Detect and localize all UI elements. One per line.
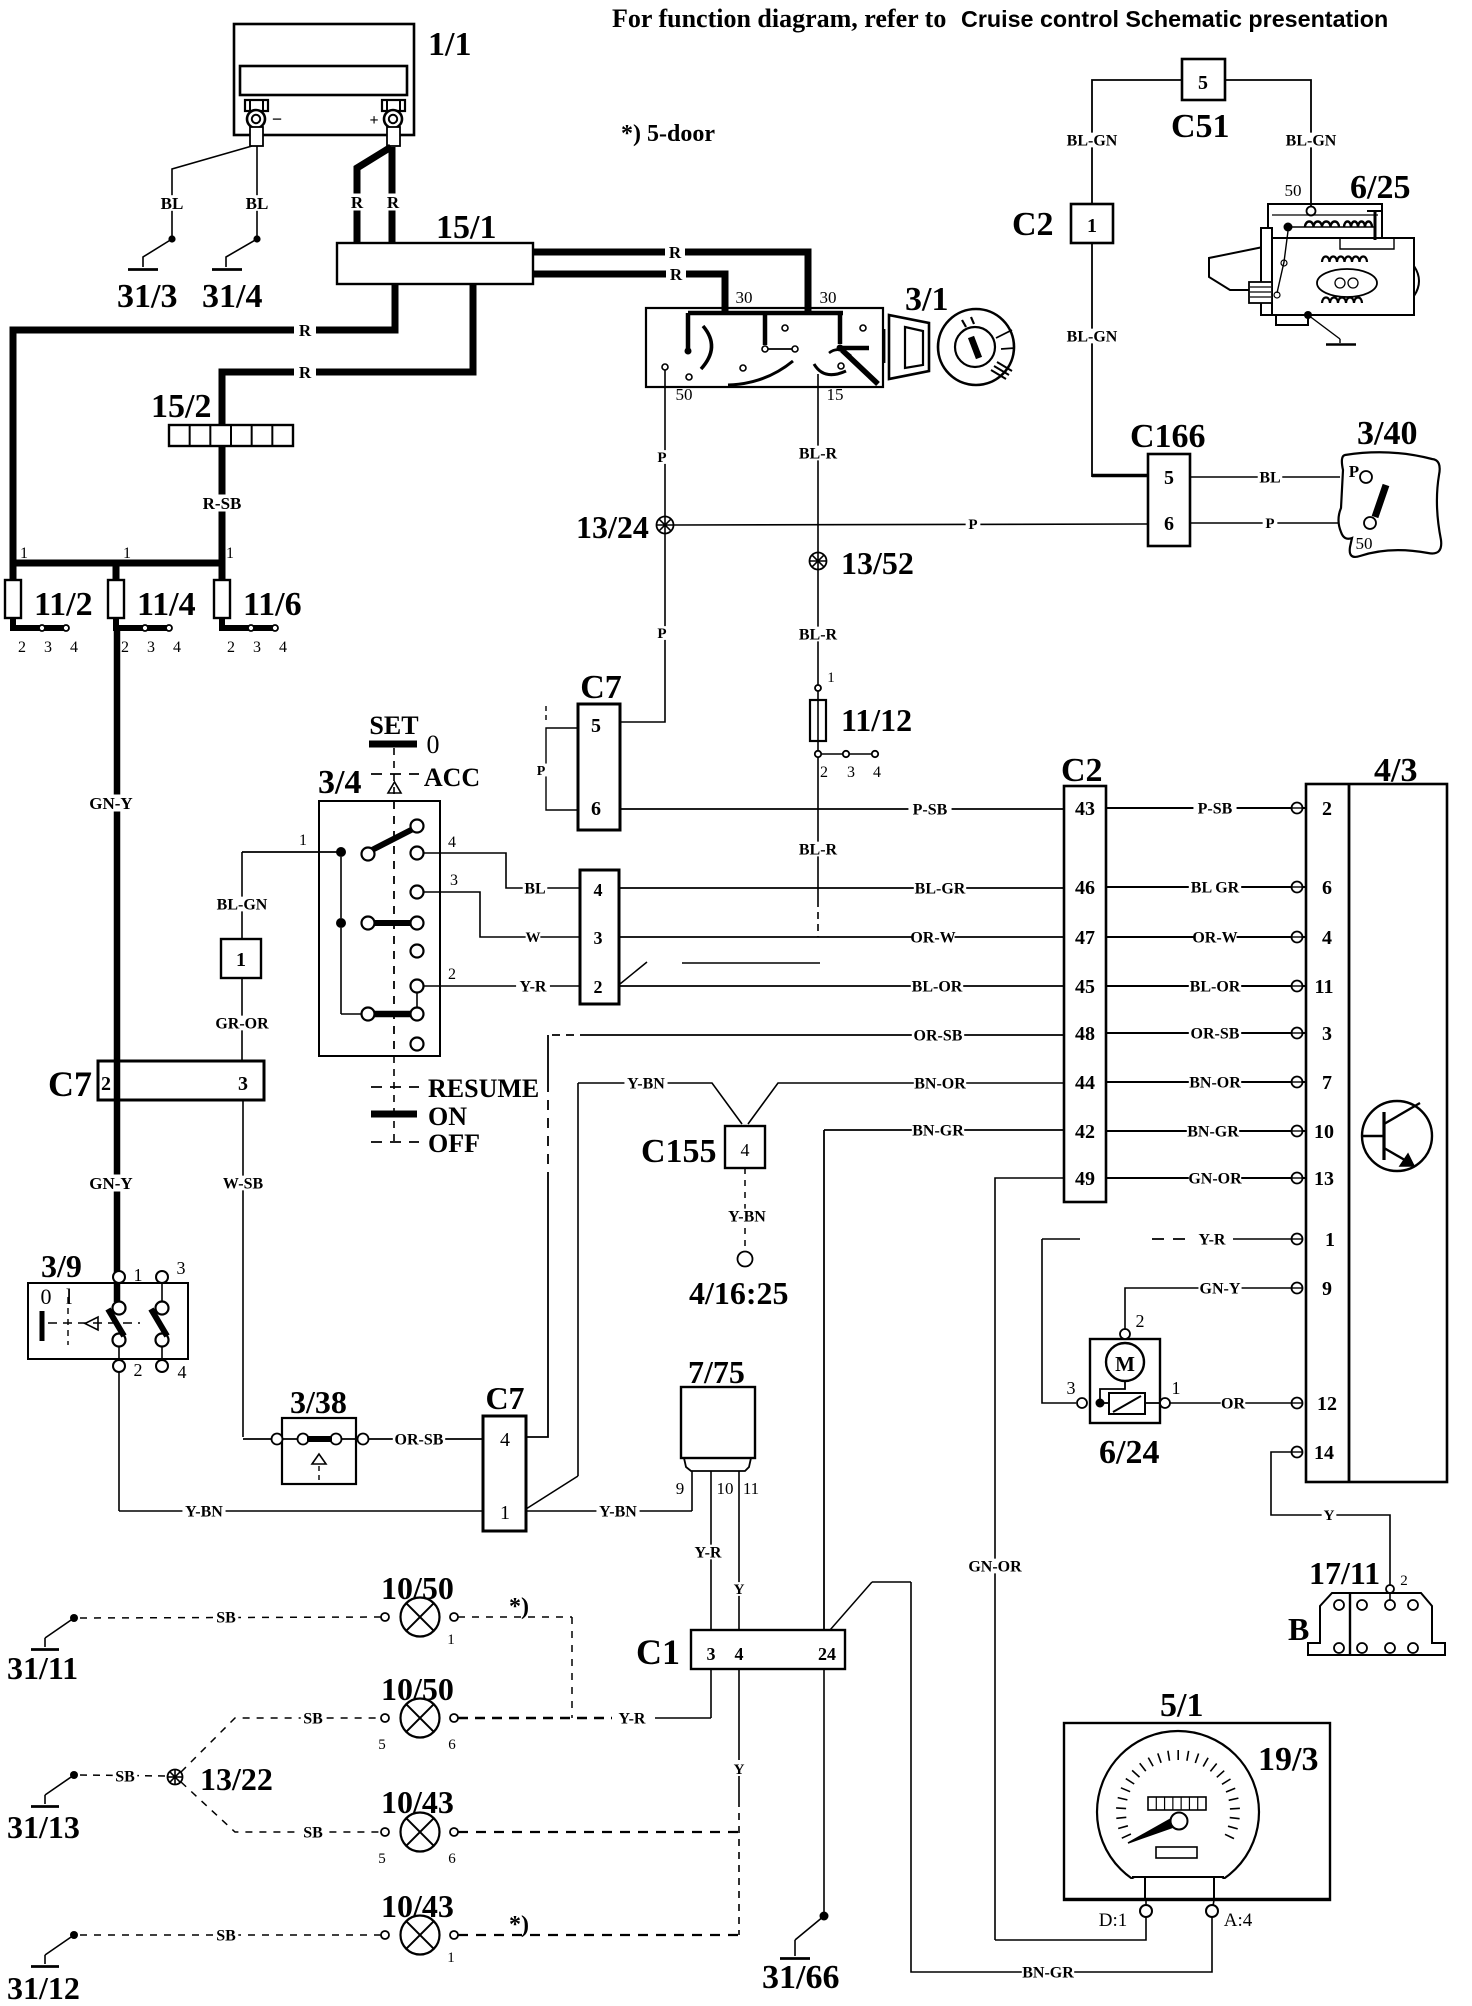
svg-text:BL-OR: BL-OR [912,978,963,995]
svg-text:42: 42 [1075,1121,1095,1143]
wire BN-OR C155 to C2 pin 44 [748,1083,1064,1124]
wire fuse bus node 1 [13,560,222,567]
svg-text:3/38: 3/38 [290,1384,347,1420]
cruise control module 4/3 [1306,784,1447,1482]
servo pin 3 [1077,1398,1087,1408]
svg-text:2: 2 [1400,1573,1408,1589]
connector C166 [1148,454,1190,546]
svg-text:SB: SB [216,1609,236,1626]
svg-text:1: 1 [447,1950,455,1966]
svg-text:13/24: 13/24 [576,509,649,545]
svg-text:3/40: 3/40 [1357,415,1417,452]
wire W 3/4 pin 3 to connector pin 3 [424,892,580,937]
wire BL-R splice 13/52 to fuse 11/12 [817,570,819,685]
svg-text:5: 5 [378,1737,386,1753]
odometer [1148,1797,1206,1810]
wire P C166 pin 6 to switch 3/40 terminal 50 [1190,522,1364,524]
svg-text:4: 4 [448,834,456,851]
svg-text:1: 1 [500,1502,510,1524]
wire BN-GR down to C1 pin 24 [823,1130,825,1630]
svg-text:31/4: 31/4 [202,278,262,315]
svg-text:13: 13 [1314,1168,1334,1190]
servo pin 1 wire OR to 4/3 pin 12 [1145,1402,1160,1404]
svg-text:1: 1 [123,545,131,562]
svg-text:11/4: 11/4 [137,586,196,623]
switch contact SET [372,829,413,850]
switch contact bottom [374,1011,411,1018]
svg-text:1: 1 [827,670,835,686]
connector C1 [691,1630,845,1669]
wire terminals 2 3 4 of 11/4 [116,625,169,631]
svg-text:Y-R: Y-R [1199,1231,1226,1248]
switch 3/9 pin 1 [113,1271,125,1283]
connector C2 [1064,786,1106,1202]
svg-text:1: 1 [299,832,307,849]
svg-text:C1: C1 [636,1632,680,1672]
speedometer scale ticks [1122,1834,1131,1838]
svg-text:31/12: 31/12 [7,1970,80,2006]
svg-text:BN-GR: BN-GR [1187,1123,1239,1140]
wire terminals 2 3 4 of 11/2 [13,625,66,631]
svg-text:5: 5 [1164,467,1174,489]
svg-text:BL-R: BL-R [799,626,838,643]
wire OR-SB to C2 pin 48 [584,1034,1064,1036]
svg-text:5: 5 [1198,72,1208,94]
svg-text:OR-W: OR-W [910,929,955,946]
svg-text:3: 3 [147,639,155,656]
svg-text:P: P [968,517,977,533]
servo solenoid valve [1096,1399,1105,1408]
svg-text:C166: C166 [1130,418,1206,455]
svg-text:R: R [299,321,312,340]
connector C7 pins 2 3 [98,1061,264,1100]
svg-text:24: 24 [818,1644,836,1664]
svg-text:BL: BL [246,194,269,213]
fuse box 15/1 [337,243,533,284]
svg-text:GN-OR: GN-OR [1188,1170,1242,1187]
svg-text:Y: Y [1324,1508,1335,1524]
fuse 11/12 [815,685,821,691]
contact 3/4 pin 3 [411,886,424,899]
wire GR-OR to C7 pin 2 [241,978,243,1061]
svg-text:1: 1 [226,545,234,562]
svg-text:50: 50 [676,385,693,404]
wire Y-R lamp 10/50 to C1 pin 3 [458,1717,612,1719]
svg-text:3: 3 [44,639,52,656]
svg-text:A:4: A:4 [1224,1910,1253,1931]
wire BL-OR connector to C2 pin 45 [619,985,1064,987]
svg-text:BL-GR: BL-GR [915,880,966,897]
svg-text:31/66: 31/66 [762,1959,839,1996]
svg-text:Y-BN: Y-BN [185,1503,223,1520]
svg-text:C7: C7 [485,1380,524,1416]
svg-text:45: 45 [1075,976,1095,998]
svg-text:15/2: 15/2 [151,388,211,425]
svg-text:Y-R: Y-R [619,1710,646,1727]
svg-text:1: 1 [1087,215,1097,237]
svg-text:Y: Y [734,1762,745,1778]
svg-text:2: 2 [594,977,603,997]
ground 31/11 [70,1614,78,1622]
svg-text:3/1: 3/1 [905,281,948,318]
svg-text:3: 3 [450,872,458,889]
svg-text:6: 6 [448,1851,456,1867]
wire P splice 13/24 to C166 pin 6 [674,524,1148,525]
wire SB 13/22 to lamp 10/50 lower [181,1718,381,1772]
node splice 31/4 wire [253,235,260,242]
fuse 11/4 [113,563,120,580]
svg-text:BN-GR: BN-GR [912,1122,964,1139]
svg-text:3: 3 [1067,1378,1076,1398]
connector C155 [725,1126,765,1168]
svg-text:Y-R: Y-R [520,978,547,995]
svg-text:BL: BL [1259,469,1280,486]
svg-text:BL-GN: BL-GN [217,896,268,913]
svg-text:SET: SET [369,711,418,740]
position labels RESUME ON OFF [393,1056,395,1146]
svg-text:3: 3 [594,928,603,948]
svg-text:5/1: 5/1 [1160,1687,1203,1724]
svg-text:2: 2 [134,1360,143,1380]
speedometer terminal A:4 [1213,1900,1214,1906]
svg-text:P-SB: P-SB [913,801,948,818]
fuse 11/6 [219,563,226,580]
svg-text:BL: BL [161,194,184,213]
svg-text:43: 43 [1075,798,1095,820]
wire BL-GN C2 pin 1 to C166 pin 5 [1091,243,1093,477]
svg-text:GN-Y: GN-Y [1200,1280,1241,1297]
svg-text:49: 49 [1075,1168,1095,1190]
svg-text:R: R [670,265,683,284]
switch contact middle [374,920,411,926]
wire Y-R down to servo 6/24 pin 3 [1042,1239,1076,1403]
svg-text:4: 4 [873,764,881,781]
wire OR-W C2 47 to 4/3 pin 4 [1106,936,1306,938]
wire GN-OR to D:1 [995,1917,1146,1940]
svg-text:BN-GR: BN-GR [1022,1964,1074,1981]
svg-text:RESUME: RESUME [428,1074,539,1103]
wire BN-GR to A:4 [911,1582,1212,1972]
wire R 15/1 to ignition terminal 30 right [533,252,808,313]
svg-text:R: R [669,243,682,262]
svg-text:10: 10 [717,1479,734,1498]
svg-text:2: 2 [121,639,129,656]
ignition key bezel [884,329,886,363]
wire 7/75 pin 9 [691,1471,693,1511]
switch open contacts [411,945,424,958]
svg-text:4: 4 [178,1362,187,1382]
svg-text:47: 47 [1075,927,1095,949]
wire BL-GN C51 to C2 pin 1 [1092,80,1182,204]
wire Y-R C1 pin 3 down [710,1669,712,1718]
ignition switch 3/1 [646,308,883,387]
svg-text:0: 0 [427,730,440,759]
svg-text:BL-R: BL-R [799,841,838,858]
svg-text:3: 3 [177,1258,186,1278]
wire P ignition 50 to splice 13/24 [664,370,666,517]
svg-text:1: 1 [447,1632,455,1648]
svg-text:4: 4 [500,1429,510,1451]
svg-text:2: 2 [227,639,235,656]
contact 3/4 pin 4 [411,847,424,860]
wire GN-Y servo pin 2 to 4/3 pin 9 [1125,1288,1291,1329]
svg-text:6: 6 [448,1737,456,1753]
wire BL-GR C2 46 to 4/3 pin 6 [1106,886,1306,888]
speedometer terminal D:1 [1145,1900,1147,1906]
svg-text:12: 12 [1317,1393,1337,1415]
svg-text:6: 6 [591,798,601,820]
svg-text:Y-R: Y-R [695,1544,722,1561]
ground 31/4 [212,268,242,271]
wire R-SB 15/2 to fuse bus [219,446,226,563]
connector C2 pin 1 [1071,204,1113,243]
wire Y-BN 3/9 pin 2 to C7 pin 1 [118,1372,120,1511]
svg-text:15/1: 15/1 [436,209,496,246]
svg-text:48: 48 [1075,1023,1095,1045]
svg-text:P: P [657,450,666,466]
svg-text:BL-OR: BL-OR [1190,978,1241,995]
svg-text:6/24: 6/24 [1099,1434,1159,1471]
svg-text:OR-SB: OR-SB [914,1027,963,1044]
svg-text:D:1: D:1 [1099,1910,1128,1931]
switch 3/9 contact left [113,1302,126,1315]
svg-text:31/13: 31/13 [7,1809,80,1845]
svg-text:4: 4 [741,1140,750,1160]
svg-text:B: B [1288,1611,1309,1647]
wire Y lamp 10/43 upper to C1 pin 4 [458,1831,739,1833]
svg-text:46: 46 [1075,877,1095,899]
wire P loop at C7 [545,706,547,722]
wire OR-W connector to C2 pin 47 [619,936,1064,938]
node splice 31/3 wire [168,235,175,242]
svg-text:15: 15 [827,385,844,404]
svg-text:3: 3 [1322,1023,1332,1045]
wire BL battery minus to 31/3 [172,146,252,236]
splice 13/24 [657,517,674,534]
svg-text:Y-BN: Y-BN [627,1075,665,1092]
svg-text:2: 2 [820,764,828,781]
svg-text:R: R [387,193,400,212]
svg-text:Y: Y [734,1582,745,1598]
svg-text:9: 9 [1322,1278,1332,1300]
svg-text:C155: C155 [641,1133,717,1170]
wire Y-BN C155 to 4/16:25 [744,1168,746,1250]
wire SB 31/12 to lamp 10/43 lower [80,1934,381,1936]
svg-text:Y-BN: Y-BN [599,1503,637,1520]
splice 13/22 [168,1770,183,1785]
svg-text:W-SB: W-SB [223,1175,264,1192]
module pin sockets [1292,803,1303,814]
svg-text:GN-Y: GN-Y [89,794,132,813]
svg-text:OR: OR [1221,1395,1245,1412]
svg-text:2: 2 [1136,1311,1145,1331]
wire R 15/1 down to fuse bus 11/2 [13,284,395,563]
svg-text:5: 5 [378,1851,386,1867]
wire BL-R fuse 11/12 down [817,757,819,900]
wire SB 13/22 to lamp 10/43 upper [181,1782,381,1832]
wire BL-R ignition 15 to splice 13/52 [817,374,819,552]
svg-text:14: 14 [1314,1442,1334,1464]
wire BL battery minus to 31/4 [256,146,258,236]
wire BL C166 pin 5 to switch 3/40 [1190,476,1340,478]
svg-text:P: P [1349,462,1359,481]
svg-text:4: 4 [173,639,181,656]
wire link [682,962,820,964]
switch 3/9 contact right [156,1302,169,1315]
svg-text:GN-Y: GN-Y [89,1174,132,1193]
wire GN-OR C2 49 to 4/3 pin 13 [1106,1177,1306,1179]
svg-text:OR-SB: OR-SB [1191,1025,1240,1042]
connector C7 pins 4 1 [483,1416,526,1531]
wire P splice 13/24 to C7 pin 5 [620,534,665,722]
svg-text:13/22: 13/22 [200,1761,273,1797]
wire Y-R 4/3 pin 1 [1042,1238,1080,1240]
svg-text:C2: C2 [1012,206,1054,243]
battery 1/1 [234,24,414,135]
switch 3/9 pin 3 [156,1271,168,1283]
wire W-SB C7 pin 3 to stop lamp switch 3/38 [242,1100,244,1437]
svg-text:11/2: 11/2 [34,586,93,623]
svg-text:1/1: 1/1 [428,26,471,63]
wire BL-GN 3/4 pin 1 down [241,852,243,939]
svg-text:9: 9 [676,1479,685,1498]
wire R battery plus to 15/1 right [389,147,396,243]
svg-text:W: W [526,930,541,946]
svg-text:4: 4 [594,880,603,900]
svg-text:C51: C51 [1171,108,1230,145]
svg-text:4: 4 [735,1644,744,1664]
trip odometer [1156,1847,1197,1858]
svg-text:2: 2 [18,639,26,656]
wire 3/4 pin 1 [242,851,341,853]
svg-text:4/16:25: 4/16:25 [689,1275,789,1311]
switch 3/9 pin 2 [118,1346,120,1361]
wire Y-BN riser to C155 [577,1083,579,1476]
connector pins 4 3 2 [580,870,619,1004]
svg-text:5: 5 [591,715,601,737]
svg-text:3/4: 3/4 [318,764,361,801]
svg-text:GN-OR: GN-OR [968,1558,1022,1575]
wire lamp 10/50 upper to Y-R net [458,1616,572,1618]
wire Y-R 3/4 pin 2 to connector pin 2 [424,985,580,987]
wire BL 3/4 pin 4 to connector pin 4 [424,853,580,888]
wire Y-R 7/75 pin 10 to C1 pin 3 [710,1471,712,1630]
svg-text:17/11: 17/11 [1309,1555,1380,1591]
svg-text:OR-W: OR-W [1192,929,1237,946]
svg-text:50: 50 [1356,534,1373,553]
svg-text:P: P [1265,516,1274,532]
wire Y lamp 10/43 lower [458,1934,739,1936]
svg-text:OR-SB: OR-SB [395,1431,444,1448]
connector C51 [1182,59,1225,100]
svg-text:BN-OR: BN-OR [1189,1074,1241,1091]
connector pin 1 inline [221,939,261,978]
svg-text:C7: C7 [580,669,622,706]
svg-text:R: R [351,193,364,212]
svg-text:C7: C7 [48,1064,92,1104]
wire BN-GR to C2 pin 42 [824,1129,1064,1131]
wire Y 7/75 pin 11 to C1 pin 4 [738,1471,740,1630]
svg-text:3/9: 3/9 [41,1248,82,1284]
svg-text:C2: C2 [1061,752,1103,789]
svg-text:BL GR: BL GR [1191,879,1240,896]
wire GN-Y fuse 11/4 to switch 3/9 [114,631,121,1302]
svg-text:2: 2 [1322,798,1332,820]
svg-text:50: 50 [1285,181,1302,200]
svg-text:31/11: 31/11 [7,1650,78,1686]
svg-text:6/25: 6/25 [1350,169,1410,206]
svg-text:P: P [657,626,666,642]
wire terminals 2 3 4 of 11/12 [815,751,821,757]
svg-text:11/12: 11/12 [841,702,912,738]
wire OR-SB C2 48 to 4/3 pin 3 [1106,1032,1306,1034]
svg-text:1: 1 [1325,1229,1335,1251]
svg-text:1: 1 [20,545,28,562]
svg-text:+: + [369,112,378,129]
svg-text:10: 10 [1314,1121,1334,1143]
svg-text:4: 4 [1322,927,1332,949]
wire BN-GR C1 pin 24 to ground 31/66 [823,1669,825,1916]
wire R battery plus to 15/1 left [357,147,391,243]
svg-text:4: 4 [279,639,287,656]
wire P-SB C2 43 to 4/3 pin 2 [1106,807,1306,809]
wire R 15/1 down to fuse strip 15/2 [222,284,473,425]
ground 31/13 [70,1771,78,1779]
svg-text:2: 2 [101,1073,111,1095]
wire GN-OR C2 pin 49 down [995,1178,1064,1940]
wire BL-OR C2 45 to 4/3 pin 11 [1106,985,1306,987]
svg-text:30: 30 [820,288,837,307]
wire Y 4/3 pin 14 to solder point 17/11 [1271,1452,1390,1600]
svg-text:SB: SB [216,1927,236,1944]
svg-text:BL: BL [524,880,545,897]
svg-text:M: M [1115,1352,1135,1376]
wire BL-GR connector to C2 pin 46 [619,887,1064,889]
svg-text:6: 6 [1322,877,1332,899]
svg-text:SB: SB [115,1768,135,1785]
contact 3/4 pin 2 [411,980,424,993]
svg-text:l: l [66,1284,72,1309]
wire OR-SB C7 pin 4 up to control module line [526,1182,548,1437]
svg-text:BL-GN: BL-GN [1067,132,1118,149]
ground starter 6/25 [1304,311,1312,319]
ground 31/12 [70,1931,78,1939]
svg-text:ACC: ACC [424,763,480,792]
svg-text:1: 1 [134,1265,143,1285]
svg-text:7: 7 [1322,1072,1332,1094]
wire 3/4 internal [340,857,342,918]
svg-text:For function diagram, refer to: For function diagram, refer to [612,4,946,33]
svg-text:Cruise control Schematic prese: Cruise control Schematic presentation [961,6,1388,32]
svg-text:3: 3 [238,1073,248,1095]
wire Y C1 pin 4 down [738,1669,740,1800]
ignition lock face [938,309,1014,385]
svg-text:1: 1 [236,949,246,971]
svg-text:7/75: 7/75 [688,1354,745,1390]
svg-text:SB: SB [303,1824,323,1841]
svg-text:BL-R: BL-R [799,445,838,462]
svg-text:BL-GN: BL-GN [1286,132,1337,149]
svg-text:3: 3 [253,639,261,656]
svg-text:19/3: 19/3 [1258,1741,1318,1778]
svg-text:11: 11 [743,1479,759,1498]
splice 13/52 [810,553,827,570]
wire SB 31/13 to splice 13/22 [80,1775,166,1776]
ground 31/3 [128,268,158,271]
wire Y-BN C7 pin 1 to relay 7/75 pin 9 [526,1510,692,1512]
svg-text:0: 0 [41,1284,52,1309]
wire SB 31/11 to lamp 10/50 [80,1617,381,1618]
